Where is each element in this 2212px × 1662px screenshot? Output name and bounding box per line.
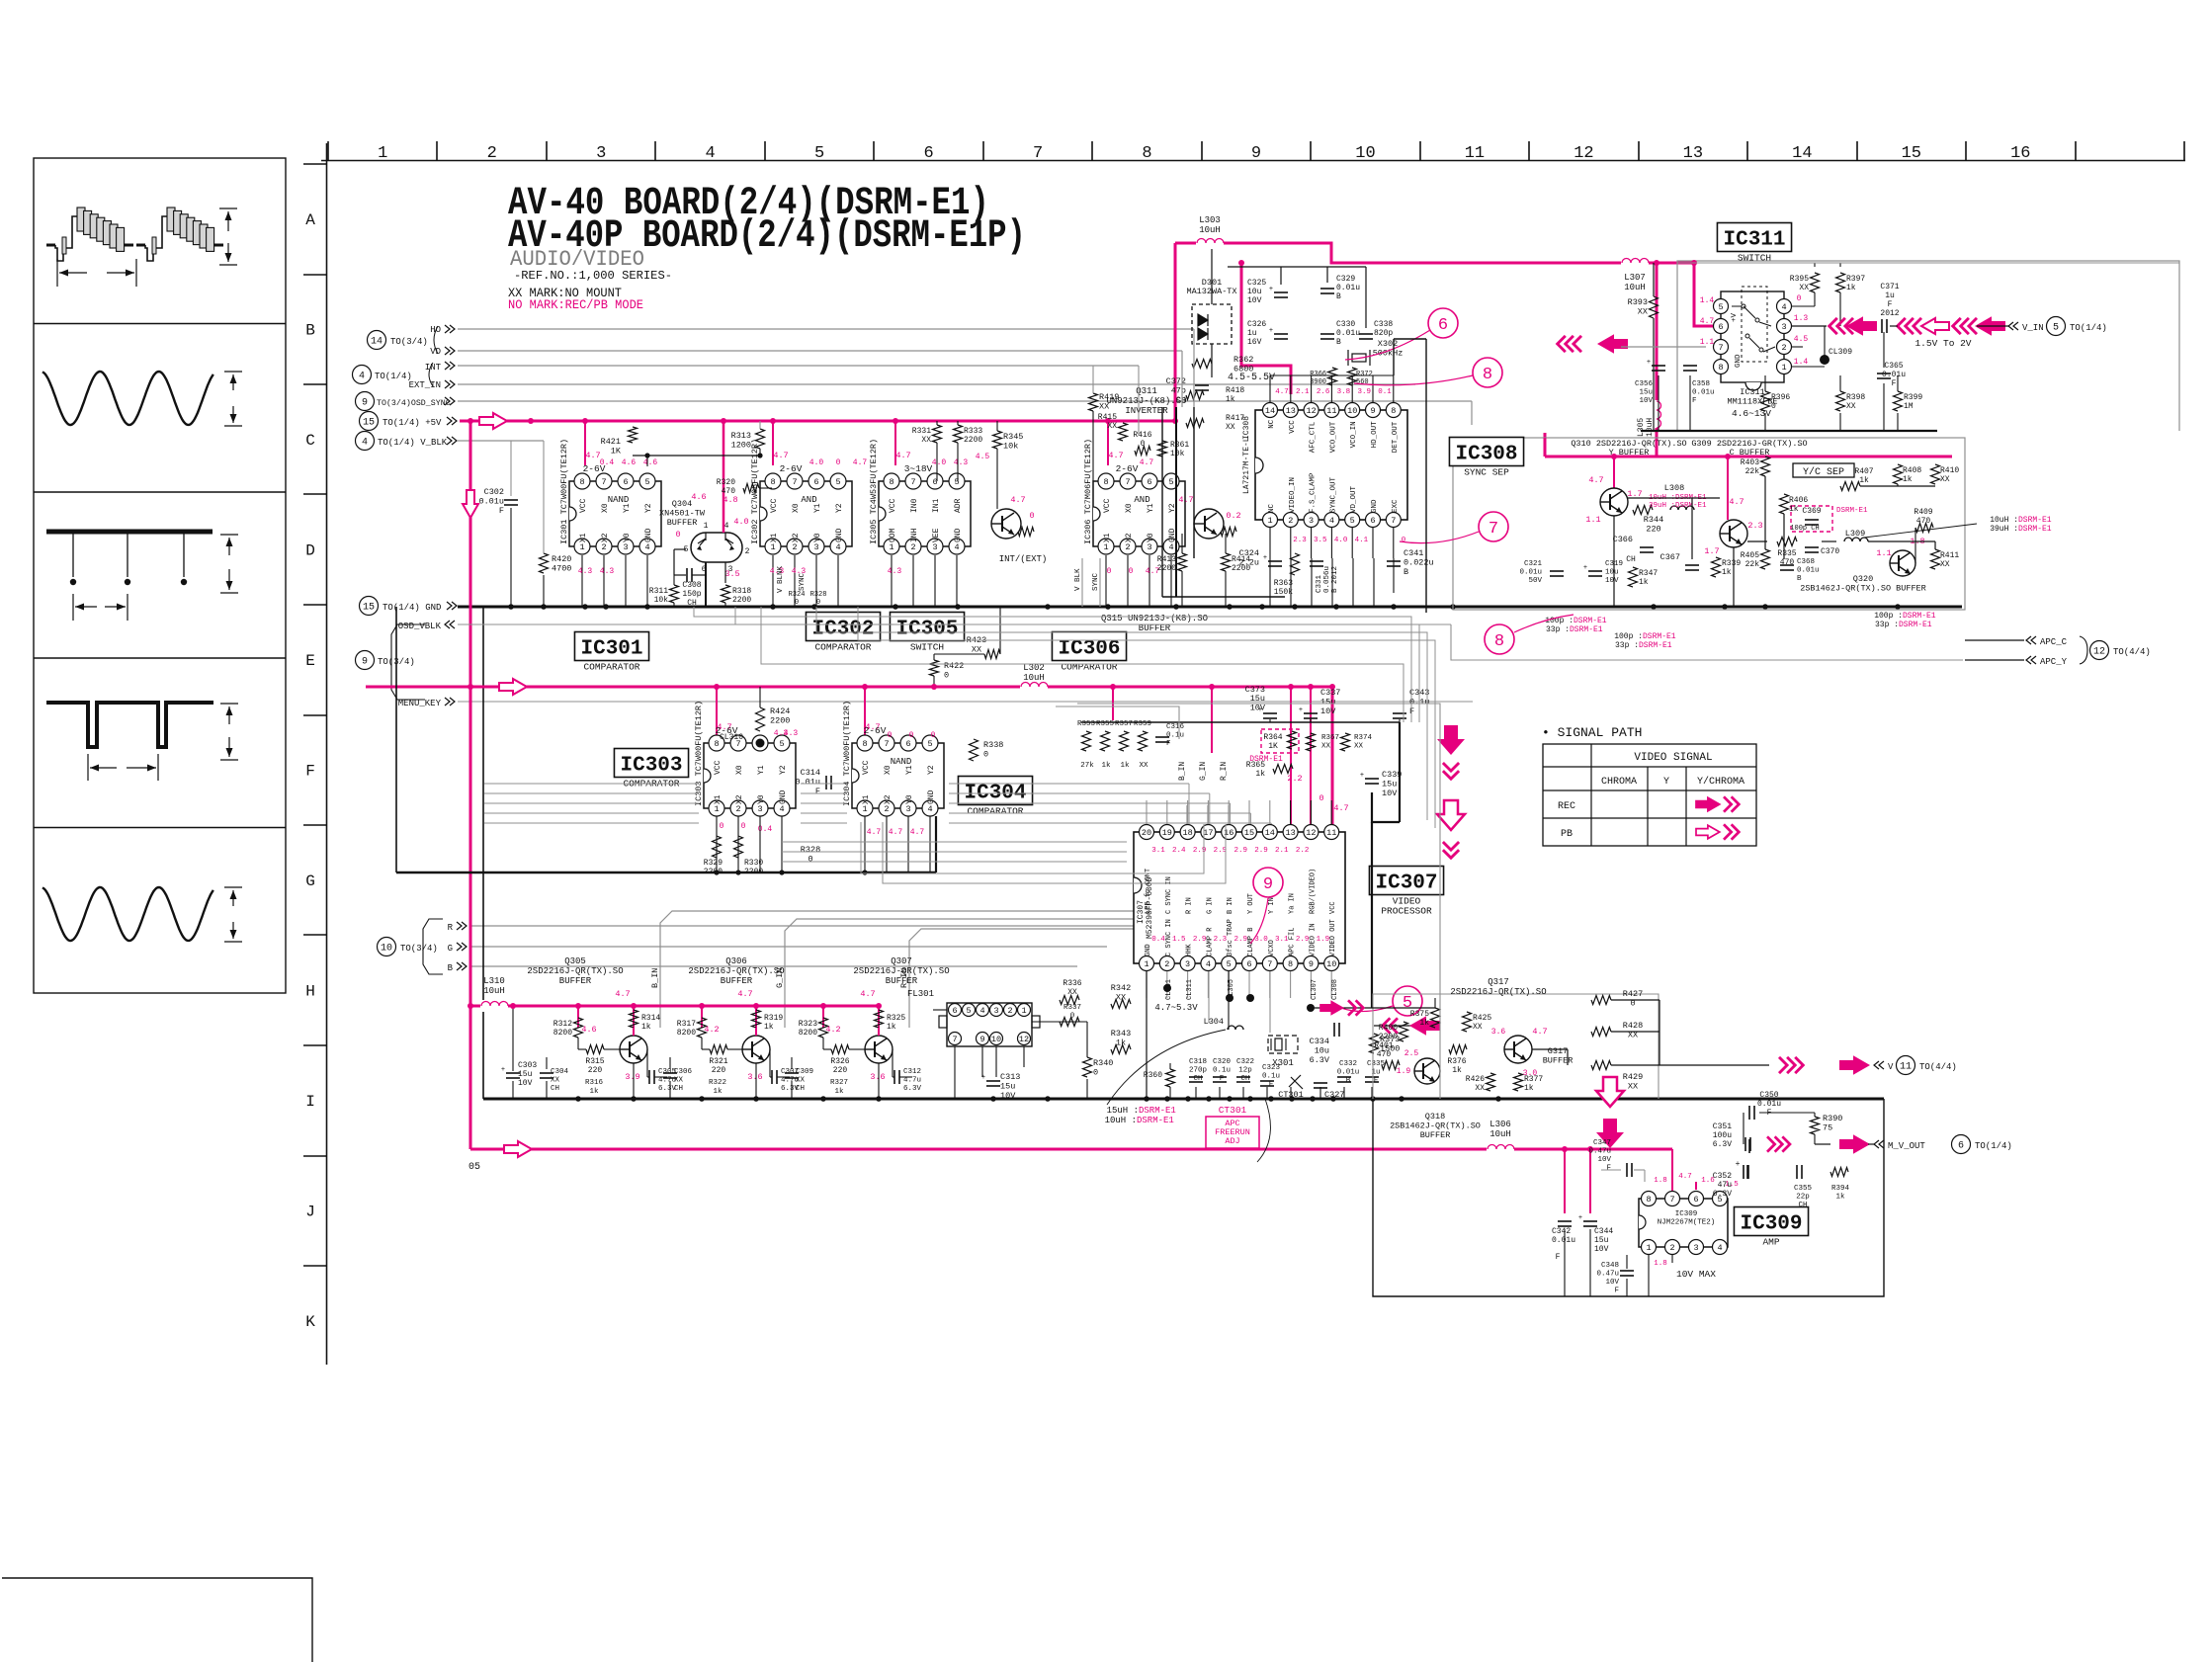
svg-text:10u: 10u bbox=[1315, 1046, 1329, 1056]
svg-text:G317: G317 bbox=[1548, 1046, 1568, 1056]
IC308 chip pins top 14-8 bbox=[1263, 403, 1278, 418]
svg-text:TO(3/4): TO(3/4) bbox=[400, 944, 438, 954]
svg-text:6.3V: 6.3V bbox=[1713, 1190, 1732, 1199]
svg-text:C331: C331 bbox=[1316, 574, 1323, 593]
capacitor C355 bbox=[1796, 1165, 1798, 1179]
svg-text:R409: R409 bbox=[1914, 508, 1932, 517]
svg-text:X2: X2 bbox=[1125, 533, 1134, 542]
svg-text:10uH :: 10uH : bbox=[1105, 1116, 1137, 1125]
svg-text:C318: C318 bbox=[1189, 1058, 1207, 1066]
svg-text:C: C bbox=[305, 432, 315, 450]
inductor L307 bbox=[1621, 257, 1649, 269]
svg-text:C325: C325 bbox=[1247, 279, 1266, 288]
capacitor C302 bbox=[504, 499, 518, 501]
capacitor C324 bbox=[1268, 560, 1282, 562]
svg-text:8: 8 bbox=[1483, 366, 1492, 384]
svg-text:3: 3 bbox=[905, 804, 910, 814]
svg-text:1k: 1k bbox=[1859, 476, 1869, 485]
R364 dashed pink box bbox=[1261, 729, 1299, 753]
svg-text:4.0: 4.0 bbox=[1334, 537, 1348, 544]
capacitor C342 bbox=[1558, 1220, 1572, 1222]
svg-text:COMPARATOR: COMPARATOR bbox=[814, 642, 871, 653]
svg-text:C337: C337 bbox=[1320, 688, 1340, 698]
svg-text:GND: GND bbox=[1145, 944, 1152, 956]
capacitor C306 bbox=[663, 1072, 677, 1074]
svg-text:0.022u: 0.022u bbox=[1404, 558, 1434, 568]
svg-text:0.01u: 0.01u bbox=[1552, 1236, 1575, 1245]
resistor R406 bbox=[1780, 494, 1789, 514]
svg-text:2200: 2200 bbox=[770, 716, 790, 726]
svg-text:+: + bbox=[1299, 706, 1303, 714]
svg-text:2-6V: 2-6V bbox=[864, 725, 887, 736]
svg-text:C332: C332 bbox=[1339, 1060, 1357, 1068]
svg-text:1.9: 1.9 bbox=[1317, 936, 1330, 944]
svg-text:R419: R419 bbox=[1099, 392, 1119, 402]
svg-text:8: 8 bbox=[579, 477, 584, 487]
buffer pink rail bbox=[468, 1005, 880, 1008]
resistor R372 bbox=[1348, 368, 1357, 385]
svg-text:XX: XX bbox=[972, 645, 981, 655]
svg-text:2200: 2200 bbox=[1157, 564, 1176, 573]
resistor R407 bbox=[1840, 482, 1860, 491]
svg-text:C304: C304 bbox=[551, 1068, 569, 1076]
svg-text:2012: 2012 bbox=[1880, 309, 1899, 318]
waveform 1 amplitude arrow bbox=[219, 208, 237, 209]
svg-text:6: 6 bbox=[1693, 1195, 1698, 1205]
crystal X302 bbox=[1352, 354, 1366, 362]
svg-text:2-6V: 2-6V bbox=[780, 463, 803, 474]
resistor R318 bbox=[722, 585, 730, 603]
svg-text:1.8: 1.8 bbox=[1654, 1260, 1667, 1268]
svg-text:XX: XX bbox=[1940, 475, 1950, 484]
svg-text:0.1: 0.1 bbox=[1378, 388, 1392, 396]
resistor R339 bbox=[1712, 557, 1721, 577]
svg-text:D: D bbox=[305, 541, 315, 559]
svg-text:VD_OUT: VD_OUT bbox=[1350, 485, 1358, 513]
svg-text:3: 3 bbox=[757, 804, 762, 814]
svg-text:2SD2216J-QR(TX).SO: 2SD2216J-QR(TX).SO bbox=[527, 966, 623, 976]
inductor L302 bbox=[1020, 681, 1048, 693]
svg-text:CL308: CL308 bbox=[1331, 979, 1339, 1000]
svg-text:0.01u: 0.01u bbox=[478, 497, 504, 507]
svg-text:1: 1 bbox=[1646, 1243, 1651, 1253]
pink drops buffer stage 3 bbox=[822, 1006, 824, 1028]
IC306 boxed label bbox=[1052, 632, 1126, 661]
svg-text:4.3: 4.3 bbox=[784, 729, 799, 738]
svg-text:1.1: 1.1 bbox=[1876, 548, 1891, 558]
wire R_IN riser bbox=[909, 929, 1229, 1028]
svg-text:B: B bbox=[448, 963, 454, 973]
svg-text:1k: 1k bbox=[589, 1088, 599, 1096]
svg-text:C368: C368 bbox=[1797, 558, 1815, 566]
wire HO bbox=[458, 328, 1194, 330]
capacitor C323 bbox=[1260, 1080, 1274, 1082]
FL301 pins top bbox=[949, 1004, 962, 1017]
svg-text:100p CH: 100p CH bbox=[1790, 525, 1819, 533]
svg-text:0.4: 0.4 bbox=[1151, 936, 1165, 944]
svg-text:2.4: 2.4 bbox=[1172, 847, 1186, 855]
svg-text:4.7: 4.7 bbox=[1333, 803, 1348, 813]
svg-text:1: 1 bbox=[1021, 1006, 1026, 1016]
svg-text:10V: 10V bbox=[1382, 789, 1398, 798]
svg-text:10k: 10k bbox=[1003, 442, 1018, 452]
svg-text:R393: R393 bbox=[1628, 297, 1648, 307]
svg-text:4.7: 4.7 bbox=[1275, 388, 1289, 396]
svg-text:R_IN: R_IN bbox=[1220, 762, 1229, 781]
svg-text:10V: 10V bbox=[1605, 577, 1619, 585]
svg-text:CL310: CL310 bbox=[720, 733, 743, 742]
svg-text:DSRM-E1: DSRM-E1 bbox=[2018, 516, 2052, 525]
wires Q305 bbox=[577, 1038, 579, 1049]
wire R421 to R313 bbox=[633, 455, 760, 457]
svg-text:0: 0 bbox=[983, 750, 988, 760]
svg-text:VCC: VCC bbox=[1103, 498, 1112, 513]
left riser GND to comparator bus bbox=[395, 607, 397, 873]
pink drop to IC305 bbox=[894, 421, 896, 465]
resistor R345 bbox=[993, 431, 1002, 449]
inductor L303 bbox=[1196, 237, 1224, 249]
wires IC311 right side bbox=[1792, 305, 1815, 307]
svg-text:C365: C365 bbox=[1884, 362, 1903, 371]
waveform 1 staircase burst group B bbox=[136, 244, 145, 247]
svg-text:INT/(EXT): INT/(EXT) bbox=[999, 554, 1048, 564]
svg-text:F: F bbox=[1888, 300, 1893, 309]
svg-text:1k: 1k bbox=[713, 1088, 723, 1096]
svg-text:C358: C358 bbox=[1692, 380, 1710, 388]
svg-text:F: F bbox=[1614, 1288, 1619, 1295]
svg-text:VCC: VCC bbox=[889, 498, 897, 513]
svg-text:4: 4 bbox=[1781, 302, 1786, 312]
svg-text:+: + bbox=[1360, 772, 1364, 780]
IC307 pin1 ground stub bbox=[1146, 971, 1148, 1099]
svg-text:15u: 15u bbox=[1320, 698, 1335, 707]
svg-text:0: 0 bbox=[808, 855, 812, 865]
svg-text:C352: C352 bbox=[1713, 1172, 1732, 1181]
svg-text:COMPARATOR: COMPARATOR bbox=[967, 806, 1023, 817]
svg-text:3.1: 3.1 bbox=[1151, 847, 1165, 855]
capacitor C369 dashed pink box bbox=[1791, 506, 1832, 532]
svg-text:6: 6 bbox=[623, 477, 628, 487]
capacitor C319 bbox=[1588, 570, 1602, 572]
svg-text:10: 10 bbox=[1326, 959, 1336, 969]
svg-text:C330: C330 bbox=[1336, 320, 1355, 329]
V out pink arrows bbox=[1779, 1057, 1803, 1073]
resistor R403 bbox=[1761, 457, 1770, 476]
svg-text:SYNC: SYNC bbox=[1092, 572, 1100, 591]
svg-text:GND: GND bbox=[927, 789, 936, 804]
svg-text:Y IN: Y IN bbox=[1268, 897, 1276, 914]
svg-text:2.1: 2.1 bbox=[1275, 847, 1289, 855]
svg-text:10uH: 10uH bbox=[1023, 673, 1045, 683]
svg-text:2: 2 bbox=[487, 144, 497, 163]
svg-text:4.7~5.3V: 4.7~5.3V bbox=[1154, 1003, 1198, 1013]
svg-text:Y0: Y0 bbox=[905, 794, 914, 804]
inductor L305 bbox=[1651, 400, 1662, 428]
signal path table grid bbox=[1543, 744, 1756, 846]
svg-text:0: 0 bbox=[720, 822, 724, 831]
svg-text:TO(1/4) GND: TO(1/4) GND bbox=[383, 603, 441, 613]
pink drop to IC304 bbox=[864, 687, 866, 737]
svg-text:2.3: 2.3 bbox=[1747, 521, 1762, 531]
svg-text:1: 1 bbox=[889, 542, 893, 552]
svg-text:R329: R329 bbox=[704, 859, 723, 868]
IC308 pin stubs top bbox=[1269, 375, 1271, 403]
svg-text:8: 8 bbox=[889, 477, 893, 487]
svg-text:1u: 1u bbox=[1885, 291, 1895, 300]
svg-text:220: 220 bbox=[833, 1066, 848, 1075]
GND bus junction dots bbox=[508, 604, 514, 610]
svg-text:COM: COM bbox=[889, 528, 897, 542]
svg-text:1K: 1K bbox=[1268, 742, 1278, 751]
Y/C SEP boxed label bbox=[1793, 463, 1854, 477]
IC311 internal dashed box bbox=[1742, 287, 1767, 362]
svg-text:5: 5 bbox=[1227, 959, 1232, 969]
svg-text:INT: INT bbox=[425, 363, 442, 373]
svg-text:C312: C312 bbox=[903, 1068, 921, 1076]
svg-text:B: B bbox=[1404, 567, 1408, 577]
svg-text:IN1: IN1 bbox=[932, 498, 941, 513]
svg-text:NO MARK:REC/PB MODE: NO MARK:REC/PB MODE bbox=[508, 298, 643, 312]
IC307 right section box bbox=[1077, 704, 1440, 1099]
capacitor C322 bbox=[1236, 1076, 1250, 1078]
svg-text:4: 4 bbox=[954, 542, 959, 552]
svg-text:4.7: 4.7 bbox=[860, 989, 875, 999]
capacitor C334 bbox=[1333, 1023, 1335, 1037]
waveform 5 sine wave bbox=[43, 887, 213, 941]
circled 8 pink upper bbox=[1473, 358, 1502, 387]
IC307 pins top 20-11 bbox=[1140, 825, 1154, 840]
resistor R361 bbox=[1158, 441, 1167, 457]
IC309 pin stubs bbox=[1648, 1255, 1650, 1296]
svg-text:5: 5 bbox=[1718, 302, 1723, 312]
svg-text:0: 0 bbox=[1141, 440, 1146, 449]
comparator output bundle wires bbox=[782, 841, 1127, 843]
buffer rail inductor L310 bbox=[480, 1000, 508, 1012]
svg-text:VCC: VCC bbox=[770, 498, 779, 513]
svg-text:0.01u: 0.01u bbox=[1692, 389, 1715, 397]
svg-text:22p: 22p bbox=[1796, 1194, 1810, 1202]
svg-text:+: + bbox=[1736, 1160, 1741, 1169]
svg-text:C350: C350 bbox=[1759, 1091, 1778, 1100]
svg-text:8: 8 bbox=[862, 739, 867, 749]
svg-text:R330: R330 bbox=[744, 859, 763, 868]
svg-text:SWITCH: SWITCH bbox=[1738, 253, 1771, 264]
pink riser to L303 loop bbox=[1174, 243, 1177, 421]
capacitor C331 bbox=[1310, 560, 1323, 562]
connector 9 TO(3/4) bbox=[356, 651, 375, 670]
svg-text:C308: C308 bbox=[682, 581, 701, 590]
svg-text:R: R bbox=[448, 923, 454, 933]
svg-text:100p :: 100p : bbox=[1614, 632, 1643, 641]
+5V pink rail bbox=[460, 420, 1175, 423]
svg-text:R326: R326 bbox=[830, 1057, 849, 1066]
svg-text:3.5: 3.5 bbox=[1314, 537, 1327, 544]
svg-text:ADR: ADR bbox=[954, 498, 963, 513]
wire MENU_KEY bbox=[458, 701, 1473, 703]
svg-text:13: 13 bbox=[1683, 144, 1703, 163]
svg-text:R408: R408 bbox=[1903, 466, 1921, 475]
IC306 pin stubs bbox=[1105, 555, 1107, 607]
circled 5 pink bbox=[1393, 986, 1422, 1016]
svg-text:R344: R344 bbox=[1644, 515, 1663, 525]
wire B to matrix bbox=[469, 965, 1077, 967]
svg-text:1.7: 1.7 bbox=[1704, 546, 1719, 556]
svg-text:ADJ: ADJ bbox=[1225, 1136, 1239, 1146]
svg-text:1k: 1k bbox=[1722, 568, 1732, 577]
svg-text:8200: 8200 bbox=[553, 1029, 572, 1038]
+5V rail entry arrow bbox=[479, 413, 507, 429]
svg-text:0.01u: 0.01u bbox=[795, 778, 820, 788]
svg-text:G: G bbox=[305, 873, 315, 890]
svg-text:4.7: 4.7 bbox=[1140, 458, 1154, 467]
svg-text:3: 3 bbox=[993, 1006, 998, 1016]
svg-text:9: 9 bbox=[362, 398, 368, 409]
pink drops buffer stage 1 bbox=[577, 1006, 579, 1028]
svg-text:R424: R424 bbox=[770, 706, 790, 716]
svg-text:2: 2 bbox=[910, 542, 915, 552]
svg-text:10uH: 10uH bbox=[1489, 1129, 1511, 1139]
capacitor C348 bbox=[1620, 1270, 1634, 1272]
svg-text:R342: R342 bbox=[1111, 983, 1131, 993]
svg-text:1k: 1k bbox=[1903, 475, 1913, 484]
svg-text:6: 6 bbox=[1718, 322, 1723, 332]
resistor R376 bbox=[1449, 1045, 1467, 1054]
resistor R416 bbox=[1135, 447, 1150, 456]
resistor R428 bbox=[1591, 1028, 1611, 1037]
svg-text:R357: R357 bbox=[1115, 720, 1133, 728]
transistor Q310 bbox=[1600, 488, 1628, 516]
svg-text:F.S_CLAMP: F.S_CLAMP bbox=[1310, 472, 1318, 513]
svg-text:75: 75 bbox=[1823, 1123, 1832, 1133]
wire INT bbox=[458, 365, 1139, 367]
circled 7 pink bbox=[1479, 512, 1508, 541]
svg-text:33p :: 33p : bbox=[1615, 641, 1639, 650]
svg-text:4.7: 4.7 bbox=[1010, 495, 1025, 505]
svg-text:Y0: Y0 bbox=[757, 794, 766, 804]
resistor R397 bbox=[1836, 273, 1845, 292]
wire R to matrix bbox=[469, 925, 1134, 927]
svg-text:4: 4 bbox=[1206, 959, 1211, 969]
svg-text:0.01u: 0.01u bbox=[1337, 1069, 1360, 1077]
svg-text:R411: R411 bbox=[1940, 551, 1959, 560]
svg-text:0.01u: 0.01u bbox=[1797, 567, 1820, 575]
svg-text:05: 05 bbox=[468, 1162, 480, 1173]
svg-text:Q315 UN9213J-(K8).SO: Q315 UN9213J-(K8).SO bbox=[1101, 614, 1208, 623]
svg-text:1: 1 bbox=[862, 804, 867, 814]
pink drop to IC307 pin13 bbox=[1290, 687, 1292, 826]
svg-text:R328: R328 bbox=[810, 591, 827, 599]
svg-text:Q317: Q317 bbox=[1488, 977, 1509, 987]
svg-text:3.0: 3.0 bbox=[1254, 936, 1268, 944]
svg-text:4.3: 4.3 bbox=[578, 567, 593, 576]
svg-text:0.01u: 0.01u bbox=[1519, 569, 1542, 577]
section box Y/C SEP bbox=[1453, 438, 1965, 610]
svg-text:F: F bbox=[1220, 1075, 1225, 1083]
IC307 boxed label bbox=[1369, 867, 1443, 895]
svg-text:1.4: 1.4 bbox=[1700, 296, 1715, 305]
resistor R429 bbox=[1591, 1061, 1611, 1070]
svg-text:L306: L306 bbox=[1489, 1120, 1511, 1129]
capacitor C337 bbox=[1304, 712, 1318, 714]
Q304 pin6 pin3 wires bbox=[705, 562, 707, 607]
svg-text:NC: NC bbox=[1268, 503, 1276, 513]
svg-text:2SD2216J-QR(TX).SO: 2SD2216J-QR(TX).SO bbox=[853, 966, 949, 976]
svg-text:0: 0 bbox=[675, 530, 680, 540]
svg-text:7: 7 bbox=[601, 477, 606, 487]
capacitor C329 bbox=[1320, 288, 1334, 290]
svg-text:16: 16 bbox=[2010, 144, 2030, 163]
svg-text:C BUFFER: C BUFFER bbox=[1730, 448, 1770, 457]
IC309 boxed label bbox=[1734, 1207, 1808, 1236]
svg-text:4.7u: 4.7u bbox=[903, 1077, 921, 1085]
IC306 gate chip bbox=[1093, 481, 1185, 546]
svg-text:15: 15 bbox=[363, 418, 375, 429]
svg-text:J: J bbox=[305, 1203, 315, 1220]
resistor R344 bbox=[1633, 506, 1653, 515]
svg-text:F: F bbox=[815, 787, 820, 796]
capacitor C312 bbox=[893, 1070, 895, 1084]
svg-text:C356: C356 bbox=[1635, 380, 1654, 388]
svg-text:C327: C327 bbox=[1324, 1090, 1344, 1100]
V out label bbox=[1874, 1061, 1884, 1069]
svg-text:R396: R396 bbox=[1771, 393, 1790, 402]
resistor R365 bbox=[1273, 765, 1293, 774]
svg-text:1k: 1k bbox=[1116, 1039, 1126, 1048]
svg-text:3.8: 3.8 bbox=[1337, 388, 1351, 396]
svg-text:0: 0 bbox=[1129, 567, 1134, 576]
R338 resistor bbox=[970, 739, 978, 761]
svg-text:19: 19 bbox=[1162, 828, 1172, 838]
svg-text:8200: 8200 bbox=[677, 1029, 696, 1038]
resistor R398 bbox=[1836, 391, 1845, 411]
svg-text:GND: GND bbox=[954, 528, 963, 542]
svg-text:2: 2 bbox=[745, 547, 750, 556]
resistor R326 bbox=[831, 1045, 849, 1054]
svg-text:VCC: VCC bbox=[714, 760, 723, 775]
svg-text:3.6: 3.6 bbox=[747, 1072, 762, 1082]
pink branch to LA7217 pin13 bbox=[1241, 263, 1291, 394]
svg-text:R410: R410 bbox=[1940, 466, 1959, 475]
svg-text:0: 0 bbox=[1797, 294, 1802, 303]
svg-text:39uH :: 39uH : bbox=[1990, 525, 2018, 534]
resistor R410 bbox=[1931, 464, 1940, 484]
svg-text:4.5-5.5V: 4.5-5.5V bbox=[1228, 373, 1275, 383]
svg-text:X1: X1 bbox=[1103, 533, 1112, 542]
svg-text:1.4: 1.4 bbox=[1794, 358, 1809, 367]
svg-text:11: 11 bbox=[1900, 1062, 1912, 1073]
waveform 5 amplitude arrow bbox=[224, 886, 242, 888]
svg-text:0.1u: 0.1u bbox=[1262, 1073, 1280, 1081]
svg-text:F: F bbox=[1892, 379, 1897, 388]
pink drop C344 bbox=[1589, 1149, 1591, 1213]
svg-text:10: 10 bbox=[991, 1035, 1001, 1044]
svg-text:1k: 1k bbox=[834, 1088, 844, 1096]
q315 bus risers bbox=[1269, 558, 1271, 607]
inductor L304 bbox=[1228, 1026, 1243, 1030]
svg-text:7: 7 bbox=[1718, 343, 1723, 353]
capacitor C321 bbox=[1550, 570, 1564, 572]
svg-text:8: 8 bbox=[1103, 477, 1108, 487]
svg-text:560: 560 bbox=[1356, 378, 1369, 386]
svg-text:C321: C321 bbox=[1524, 560, 1543, 568]
svg-text:R401: R401 bbox=[1374, 1041, 1393, 1050]
svg-text:F: F bbox=[1269, 1081, 1274, 1089]
border ruler vertical line bbox=[326, 143, 328, 1365]
wire B_IN riser bbox=[660, 911, 1187, 1028]
svg-text:4.0: 4.0 bbox=[932, 458, 947, 467]
svg-text:R355: R355 bbox=[1096, 720, 1115, 728]
svg-text:F: F bbox=[1409, 706, 1414, 716]
